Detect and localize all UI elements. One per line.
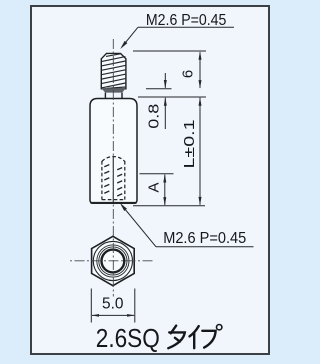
dimension: extension line body top bbox=[138, 96, 206, 98]
centerline solid segment through hole bbox=[112, 157, 114, 203]
svg-text:2.6SQ: 2.6SQ bbox=[96, 325, 160, 353]
dimension 0.8 (outside arrows) bbox=[164, 73, 167, 129]
svg-text:A: A bbox=[146, 182, 163, 192]
dimension: extension line thread depth bbox=[140, 173, 174, 175]
svg-text:M2.6 P=0.45: M2.6 P=0.45 bbox=[146, 12, 227, 29]
svg-text:0.8: 0.8 bbox=[145, 104, 162, 129]
dimension 6 (stud length) bbox=[199, 51, 202, 88]
dimension: extension line body bottom bbox=[133, 205, 205, 207]
centerline solid segments through hexagon bbox=[92, 260, 134, 262]
vertical centerline bbox=[112, 39, 114, 297]
dimension L±0.1 (body length) bbox=[199, 97, 202, 205]
dimension A (thread depth) bbox=[163, 174, 166, 206]
neck bbox=[105, 93, 122, 99]
svg-text:6: 6 bbox=[179, 70, 196, 78]
hidden thread marks bbox=[104, 165, 122, 196]
horizontal centerline (hex view) bbox=[69, 260, 155, 262]
hole chamfer circle bbox=[97, 245, 129, 277]
threaded stud M2.6 (top) bbox=[101, 53, 126, 88]
dimension 5.0 (width across flats) bbox=[91, 289, 135, 323]
svg-text:M2.6 P=0.45: M2.6 P=0.45 bbox=[163, 230, 246, 247]
body (hex spacer side view) bbox=[90, 99, 137, 204]
hexagon end view bbox=[92, 236, 135, 285]
caption katakana タイプ bbox=[168, 326, 215, 349]
thread circle bbox=[99, 247, 127, 275]
hidden tapped hole (dashed) bbox=[102, 156, 125, 199]
chamfer circle bbox=[93, 241, 132, 280]
thread runout band bbox=[101, 88, 125, 92]
stud thread hatch bbox=[102, 54, 125, 89]
svg-text:5.0: 5.0 bbox=[102, 296, 124, 313]
handakuten of プ bbox=[217, 325, 222, 330]
drawing panel bbox=[31, 6, 269, 354]
dimension: extension line stud bottom (0.8 top) bbox=[146, 88, 172, 90]
tapped hole circle bbox=[102, 250, 125, 273]
body bottom face line bbox=[91, 202, 137, 204]
dimension: extension line stud top bbox=[133, 50, 206, 52]
svg-text:L±0.1: L±0.1 bbox=[181, 120, 198, 169]
